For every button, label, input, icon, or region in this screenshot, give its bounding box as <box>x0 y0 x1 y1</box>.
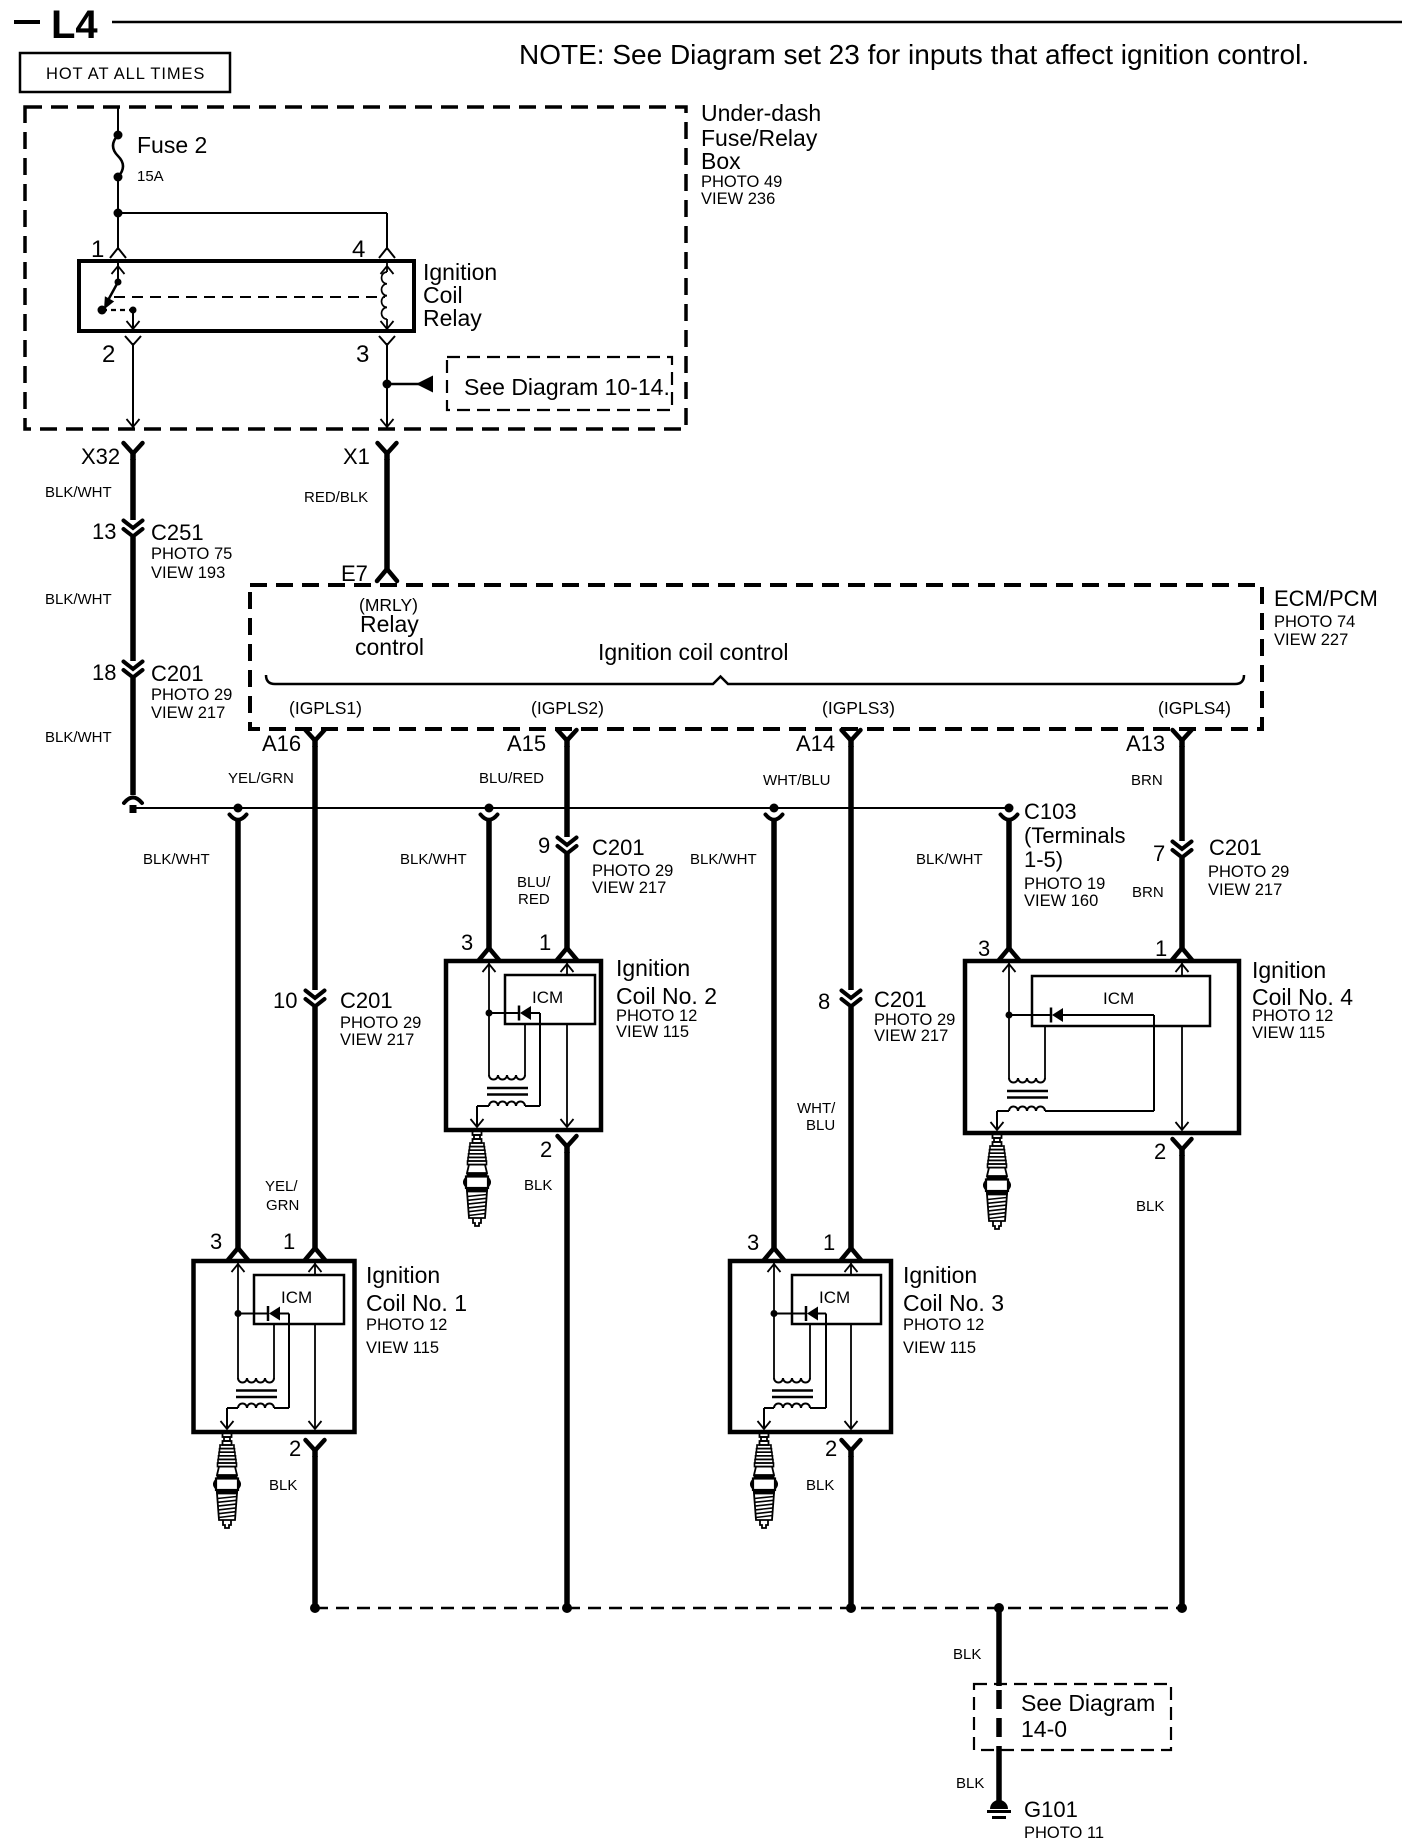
svg-text:7: 7 <box>1153 841 1165 866</box>
coil 1 pin 3 internal lead <box>237 1261 239 1378</box>
junction node below fuse <box>114 209 123 218</box>
svg-text:1: 1 <box>823 1230 835 1255</box>
svg-text:VIEW 115: VIEW 115 <box>366 1339 439 1357</box>
ground bus junction coil 4 <box>1177 1603 1187 1613</box>
svg-text:X1: X1 <box>343 444 370 469</box>
svg-text:Box: Box <box>701 148 741 174</box>
svg-text:BLU: BLU <box>806 1117 835 1134</box>
svg-text:BLK: BLK <box>1136 1198 1164 1215</box>
svg-text:Ignition: Ignition <box>1252 957 1326 983</box>
BLK/WHT distribution bus <box>133 807 1009 809</box>
coil 4 pin 3 internal lead <box>1008 961 1010 1078</box>
svg-text:BLK/WHT: BLK/WHT <box>690 851 757 868</box>
svg-text:WHT/: WHT/ <box>797 1100 836 1117</box>
coil 3 core <box>772 1389 813 1392</box>
svg-text:X32: X32 <box>81 444 120 469</box>
spark plug 4 <box>984 1134 1010 1229</box>
ground bus junction coil 2 <box>562 1603 572 1613</box>
coil 3 primary winding <box>774 1378 810 1383</box>
ignition coil control bracket <box>266 675 1244 684</box>
svg-text:VIEW 193: VIEW 193 <box>151 564 225 582</box>
coil 1 ICM box <box>254 1275 344 1324</box>
svg-text:PHOTO 29: PHOTO 29 <box>340 1014 421 1032</box>
spark plug 2 <box>464 1131 490 1226</box>
bus tap C103 to coil 4 <box>1001 804 1018 820</box>
coil 1 pin 1 connector chevron <box>305 1248 325 1260</box>
svg-text:13: 13 <box>92 519 116 544</box>
svg-text:Coil No. 1: Coil No. 1 <box>366 1290 467 1316</box>
coil 4 internal node <box>1006 1012 1013 1019</box>
relay switch common dot <box>115 279 122 286</box>
connector C201 pin 7 on A13 wire <box>1173 842 1192 858</box>
under-dash fuse/relay box <box>25 107 686 429</box>
svg-text:VIEW 115: VIEW 115 <box>903 1339 976 1357</box>
relay pin 1 internal lead <box>117 261 119 282</box>
svg-text:BLU/RED: BLU/RED <box>479 770 544 787</box>
spark plug 1 <box>214 1433 240 1528</box>
svg-text:PHOTO 11: PHOTO 11 <box>1024 1824 1104 1842</box>
svg-text:VIEW 217: VIEW 217 <box>1208 881 1282 899</box>
svg-text:14-0: 14-0 <box>1021 1716 1067 1742</box>
svg-text:(IGPLS1): (IGPLS1) <box>289 698 362 718</box>
svg-text:HOT AT ALL TIMES: HOT AT ALL TIMES <box>46 65 205 83</box>
svg-text:E7: E7 <box>341 561 368 586</box>
svg-text:C103: C103 <box>1024 799 1077 824</box>
svg-text:Fuse 2: Fuse 2 <box>137 132 207 158</box>
svg-text:BLK/WHT: BLK/WHT <box>45 729 112 746</box>
svg-text:2: 2 <box>540 1137 552 1162</box>
wire BLK/WHT C251 to C201 <box>130 537 136 661</box>
svg-text:2: 2 <box>102 341 115 368</box>
coil 1 pin 1 internal lead <box>314 1261 316 1275</box>
svg-text:VIEW 217: VIEW 217 <box>340 1031 414 1049</box>
junction node on pin 3 wire <box>383 380 392 389</box>
coil 2 pin 3 internal lead <box>488 961 490 1075</box>
svg-text:BLK/WHT: BLK/WHT <box>45 591 112 608</box>
coil 4 primary winding <box>1009 1078 1045 1083</box>
svg-text:C201: C201 <box>592 835 645 860</box>
connector C251 pin 13 <box>124 521 143 537</box>
svg-text:BLK: BLK <box>953 1646 981 1663</box>
relay switch to pin 2 dashed link <box>102 309 133 311</box>
svg-text:PHOTO 12: PHOTO 12 <box>1252 1007 1333 1025</box>
svg-text:Ignition: Ignition <box>903 1262 977 1288</box>
ground G101 symbol <box>990 1800 1008 1809</box>
svg-text:WHT/BLU: WHT/BLU <box>763 772 831 789</box>
svg-text:C201: C201 <box>1209 835 1262 860</box>
wire BLK/WHT tap to coil 2 pin 3 <box>486 820 492 949</box>
svg-text:Relay: Relay <box>423 305 482 331</box>
wire BLK/WHT C201 to ground bus <box>130 678 136 795</box>
wire BLK/WHT C103 to coil 4 pin 3 <box>1006 820 1012 949</box>
relay pin 4 internal lead arrow <box>381 266 394 274</box>
title rule right <box>112 21 1402 24</box>
wire A15 BLU/RED upper <box>564 746 570 837</box>
svg-text:NOTE: See Diagram set 23 for i: NOTE: See Diagram set 23 for inputs that… <box>519 39 1309 70</box>
svg-text:10: 10 <box>273 988 297 1013</box>
coil 1 diode D1 <box>238 1313 268 1315</box>
svg-text:L4: L4 <box>51 3 98 47</box>
coil 3 pin 3 connector chevron <box>764 1248 784 1260</box>
svg-text:BLK: BLK <box>956 1775 984 1792</box>
coil 2 internal node <box>486 1010 493 1017</box>
svg-text:ICM: ICM <box>1103 989 1134 1008</box>
coil 2 secondary winding <box>489 1102 525 1107</box>
wire A16 YEL/GRN lower <box>312 1007 318 1249</box>
svg-text:G101: G101 <box>1024 1797 1078 1822</box>
coil 2 secondary to spark plug lead <box>476 1106 478 1127</box>
coil 2 pin 1 connector chevron <box>557 948 577 960</box>
bus tap to coil 3 <box>766 804 783 820</box>
coil 2 core <box>487 1087 528 1090</box>
svg-text:GRN: GRN <box>266 1197 299 1214</box>
relay switch contact dot <box>98 306 107 315</box>
wire: branch junction to relay pin 4 <box>118 212 387 214</box>
coil 4 pin 3 connector chevron <box>999 948 1019 960</box>
svg-text:BLK/WHT: BLK/WHT <box>400 851 467 868</box>
svg-text:Ignition: Ignition <box>616 955 690 981</box>
coil 2 pin 2 connector <box>558 1136 577 1153</box>
svg-text:BLU/: BLU/ <box>517 874 551 891</box>
relay pin 2 internal lead <box>132 310 134 329</box>
coil 3 pin 2 connector <box>842 1440 861 1457</box>
hot at all times box <box>20 53 230 92</box>
wire A15 BLU/RED lower <box>564 854 570 949</box>
coil 3 internal node <box>771 1310 778 1317</box>
wire A16 YEL/GRN upper <box>312 746 318 990</box>
coil 3 pin 3 internal lead <box>773 1261 775 1378</box>
bus tap to coil 2 <box>481 804 498 820</box>
pin 3 connector <box>379 336 395 353</box>
svg-text:PHOTO 49: PHOTO 49 <box>701 173 782 191</box>
svg-text:PHOTO 12: PHOTO 12 <box>903 1316 984 1334</box>
coil 2 pin 1 internal lead <box>566 961 568 975</box>
svg-text:(IGPLS4): (IGPLS4) <box>1158 698 1231 718</box>
svg-text:PHOTO 29: PHOTO 29 <box>592 862 673 880</box>
svg-text:1: 1 <box>91 236 104 263</box>
svg-text:YEL/: YEL/ <box>265 1178 298 1195</box>
svg-text:VIEW 160: VIEW 160 <box>1024 892 1098 910</box>
coil 1 internal node <box>235 1310 242 1317</box>
wire BLK/WHT tap to coil 1 pin 3 <box>235 820 241 1249</box>
coil 1 core <box>236 1389 277 1392</box>
spark plug 3 <box>751 1433 777 1528</box>
svg-text:2: 2 <box>825 1436 837 1461</box>
svg-text:4: 4 <box>352 236 365 263</box>
svg-text:VIEW 115: VIEW 115 <box>616 1023 689 1041</box>
wire: hot feed into fuse 2 <box>117 107 119 135</box>
bus tap to coil 1 <box>230 804 247 820</box>
coil 4 pin 1 internal lead <box>1181 961 1183 976</box>
svg-text:C201: C201 <box>874 987 927 1012</box>
coil 4 secondary to spark plug lead <box>996 1111 998 1130</box>
coil 4 core <box>1007 1090 1048 1093</box>
svg-text:1-5): 1-5) <box>1024 847 1063 872</box>
svg-text:8: 8 <box>818 989 830 1014</box>
connector C201 pin 9 on A15 wire <box>558 838 577 854</box>
wire: relay pin 2 down inside fuse box <box>132 352 134 429</box>
svg-text:Ignition: Ignition <box>366 1262 440 1288</box>
svg-text:BLK: BLK <box>269 1477 297 1494</box>
ignition coil relay box <box>79 261 414 331</box>
svg-text:PHOTO 12: PHOTO 12 <box>366 1316 447 1334</box>
ignition coil no. 3 box <box>730 1261 891 1432</box>
ground bus junction coil 1 <box>310 1603 320 1613</box>
svg-text:A14: A14 <box>796 731 835 756</box>
coil 4 pin 2 internal lead <box>1181 1026 1183 1130</box>
coil 4 diode to secondary wire <box>1153 1015 1155 1111</box>
wire X1 RED/BLK to ECM pin E7 <box>384 459 390 569</box>
wire A14 WHT/BLU upper <box>848 746 854 990</box>
wire: junction to relay pin 1 <box>117 213 119 250</box>
coil 2 diode D2 <box>489 1012 519 1014</box>
coil 1 secondary to spark plug lead <box>226 1408 228 1429</box>
svg-text:PHOTO 75: PHOTO 75 <box>151 545 232 563</box>
coil 3 diode D3 <box>774 1313 806 1315</box>
coil 2 ICM box <box>505 975 595 1024</box>
svg-text:VIEW 217: VIEW 217 <box>874 1027 948 1045</box>
svg-text:2: 2 <box>1154 1139 1166 1164</box>
svg-text:Under-dash: Under-dash <box>701 100 821 126</box>
wire BLK/WHT tap to coil 3 pin 3 <box>771 820 777 1249</box>
wire continuation dashes inside box <box>996 1690 1002 1748</box>
coil 3 pin 2 internal lead <box>850 1324 852 1429</box>
connector C201 pin 8 on A14 wire <box>842 991 861 1007</box>
pin 4 connector chevron <box>379 248 395 258</box>
svg-text:3: 3 <box>978 936 990 961</box>
fuse F2 bottom terminal dot <box>114 173 123 182</box>
branch arrowhead <box>416 376 433 393</box>
coil 1 pin 3 connector chevron <box>228 1248 248 1260</box>
wire BLK coil 4 pin 2 to ground bus <box>1179 1155 1185 1608</box>
wire BLK to ground G101 <box>996 1748 1002 1801</box>
svg-text:Coil No. 3: Coil No. 3 <box>903 1290 1004 1316</box>
svg-text:C201: C201 <box>151 661 204 686</box>
wire: relay pin 3 down inside fuse box <box>386 352 388 429</box>
coil 4 secondary winding <box>1009 1107 1045 1112</box>
svg-text:(Terminals: (Terminals <box>1024 823 1125 848</box>
svg-text:ICM: ICM <box>281 1288 312 1307</box>
svg-text:RED/BLK: RED/BLK <box>304 489 368 506</box>
svg-text:VIEW 217: VIEW 217 <box>592 879 666 897</box>
svg-text:BRN: BRN <box>1131 772 1163 789</box>
svg-text:BLK/WHT: BLK/WHT <box>143 851 210 868</box>
svg-text:1: 1 <box>539 930 551 955</box>
svg-text:3: 3 <box>747 1230 759 1255</box>
coil 3 ICM box <box>792 1275 881 1324</box>
coil 4 pin 1 connector chevron <box>1172 948 1192 960</box>
ignition coil no. 1 box <box>194 1261 355 1432</box>
wire X32 BLK/WHT down <box>130 459 136 520</box>
relay coil winding <box>386 261 388 272</box>
svg-text:PHOTO 19: PHOTO 19 <box>1024 875 1105 893</box>
svg-text:A15: A15 <box>507 731 546 756</box>
see diagram 10-14 box <box>447 357 672 410</box>
svg-text:BRN: BRN <box>1132 884 1164 901</box>
svg-text:Coil No. 2: Coil No. 2 <box>616 983 717 1009</box>
coil 1 secondary winding <box>238 1404 274 1409</box>
wire BLK coil 1 pin 2 to ground bus <box>312 1456 318 1608</box>
svg-text:A13: A13 <box>1126 731 1165 756</box>
svg-text:ICM: ICM <box>819 1288 850 1307</box>
coil 4 ICM box <box>1032 976 1210 1026</box>
coil 3 pin 1 connector chevron <box>841 1248 861 1260</box>
wire: branch to see diagram 10-14 <box>387 383 419 386</box>
svg-text:18: 18 <box>92 660 116 685</box>
svg-text:C201: C201 <box>340 988 393 1013</box>
svg-text:ECM/PCM: ECM/PCM <box>1274 586 1378 611</box>
relay switch arm <box>106 282 118 304</box>
svg-text:1: 1 <box>283 1229 295 1254</box>
ground bus junction G101 drop <box>994 1603 1004 1613</box>
svg-text:RED: RED <box>518 891 550 908</box>
svg-text:(IGPLS2): (IGPLS2) <box>531 698 604 718</box>
pin 1 connector chevron <box>110 248 126 258</box>
relay pin 3 internal lead arrow <box>381 321 394 329</box>
coil 3 secondary winding <box>774 1404 810 1409</box>
fuse 2 element <box>113 135 123 177</box>
svg-text:2: 2 <box>289 1436 301 1461</box>
see diagram 14-0 box <box>974 1684 1171 1750</box>
svg-text:3: 3 <box>461 930 473 955</box>
svg-text:PHOTO 29: PHOTO 29 <box>1208 863 1289 881</box>
wire end connector at bus <box>124 798 142 814</box>
ground bus junction coil 3 <box>846 1603 856 1613</box>
svg-text:9: 9 <box>538 833 550 858</box>
relay actuation dashed line <box>114 296 385 298</box>
svg-text:3: 3 <box>356 341 369 368</box>
svg-text:PHOTO 74: PHOTO 74 <box>1274 613 1355 631</box>
coil 3 diode to secondary wire <box>825 1314 827 1409</box>
fuse F2 top terminal dot <box>114 131 123 140</box>
coil 1 pin 2 internal lead <box>314 1324 316 1429</box>
svg-text:Ignition coil control: Ignition coil control <box>598 639 789 665</box>
svg-text:15A: 15A <box>137 168 164 185</box>
coil 1 pin 2 connector <box>306 1440 325 1457</box>
ignition coil no. 4 box <box>965 961 1239 1133</box>
ignition coil no. 2 box <box>446 961 601 1130</box>
coil 1 diode to secondary wire <box>288 1314 290 1409</box>
svg-text:BLK: BLK <box>524 1177 552 1194</box>
connector C201 pin 10 on A16 wire <box>306 991 325 1007</box>
coil 3 secondary to spark plug lead <box>763 1408 765 1429</box>
svg-text:A16: A16 <box>262 731 301 756</box>
coil 4 diode D4 <box>1009 1014 1051 1016</box>
svg-text:BLK: BLK <box>806 1477 834 1494</box>
coil 3 pin 1 internal lead <box>850 1261 852 1275</box>
svg-text:C251: C251 <box>151 520 204 545</box>
coil 2 pin 2 internal lead <box>566 1024 568 1127</box>
svg-text:3: 3 <box>210 1229 222 1254</box>
pin 2 connector <box>125 336 141 353</box>
svg-text:(IGPLS3): (IGPLS3) <box>822 698 895 718</box>
coil 1 primary winding <box>238 1378 274 1383</box>
svg-text:VIEW 236: VIEW 236 <box>701 190 775 208</box>
wire: fuse to junction <box>117 177 119 213</box>
wire BLK coil 2 pin 2 to ground bus <box>564 1152 570 1608</box>
wire A14 WHT/BLU lower <box>848 1007 854 1249</box>
wire A13 BRN lower <box>1179 858 1185 949</box>
coil 4 pin 2 connector <box>1173 1139 1192 1156</box>
coil 2 pin 3 connector chevron <box>479 948 499 960</box>
svg-text:See Diagram 10-14.: See Diagram 10-14. <box>464 374 670 400</box>
title rule left <box>14 20 40 24</box>
svg-text:YEL/GRN: YEL/GRN <box>228 770 294 787</box>
ECM/PCM box <box>250 585 1262 729</box>
wire A13 BRN upper <box>1179 746 1185 841</box>
svg-text:VIEW 115: VIEW 115 <box>1252 1024 1325 1042</box>
svg-text:BLK/WHT: BLK/WHT <box>916 851 983 868</box>
ground bus dashed wire <box>315 1607 1182 1610</box>
svg-text:1: 1 <box>1155 936 1167 961</box>
wire BLK coil 3 pin 2 to ground bus <box>848 1456 854 1608</box>
svg-text:control: control <box>355 634 424 660</box>
svg-text:PHOTO 29: PHOTO 29 <box>151 686 232 704</box>
connector C201 pin 18 <box>124 662 143 678</box>
wire BLK bus to see diagram 14-0 <box>996 1608 1002 1686</box>
svg-text:VIEW 217: VIEW 217 <box>151 704 225 722</box>
svg-text:BLK/WHT: BLK/WHT <box>45 484 112 501</box>
svg-text:VIEW 227: VIEW 227 <box>1274 631 1348 649</box>
svg-text:ICM: ICM <box>532 988 563 1007</box>
svg-text:See Diagram: See Diagram <box>1021 1690 1155 1716</box>
coil 2 diode to secondary wire <box>539 1013 541 1106</box>
coil 2 primary winding <box>489 1075 525 1080</box>
